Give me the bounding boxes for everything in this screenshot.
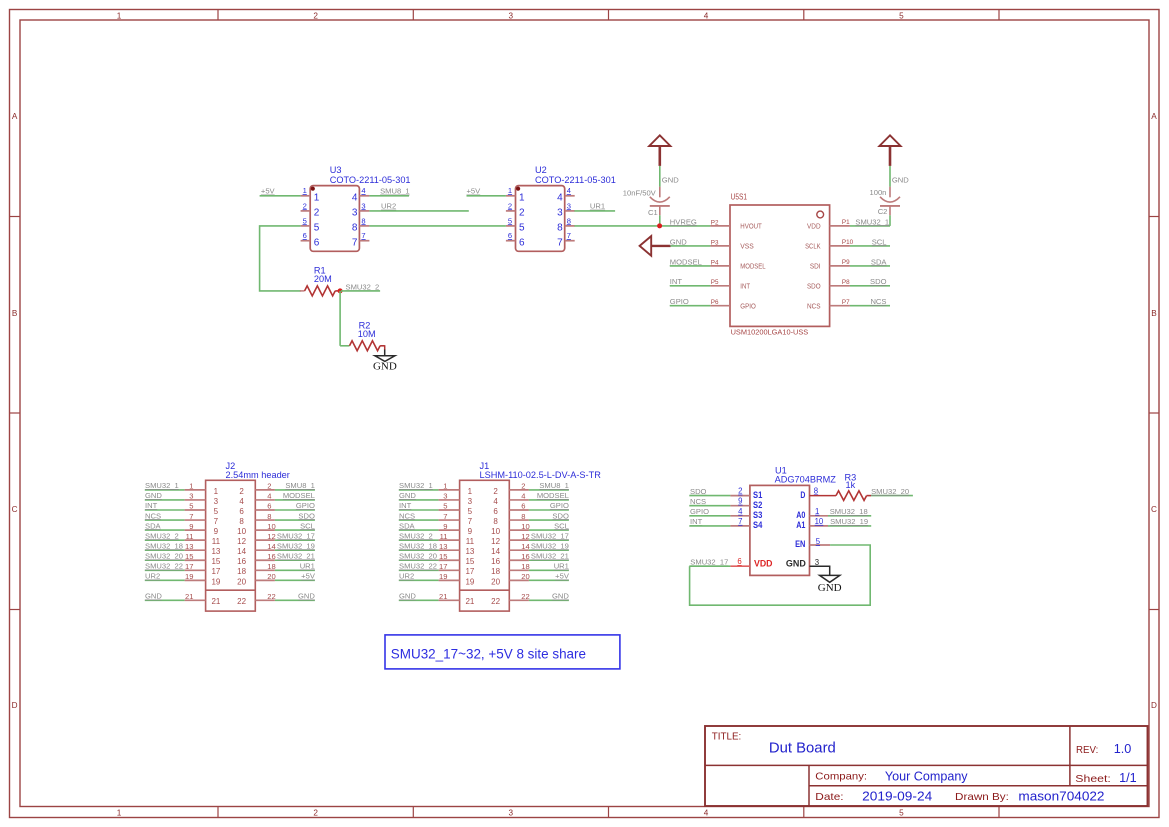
- svg-text:SMU32_22: SMU32_22: [399, 562, 437, 571]
- svg-text:18: 18: [521, 562, 529, 571]
- U2 pin 6: [506, 240, 516, 242]
- U5S1 pin P4 MODSEL: [710, 265, 730, 267]
- svg-text:19: 19: [465, 577, 474, 586]
- net label SMU32_1: [855, 217, 889, 226]
- analog mux U1 ADG704BRMZ: [730, 465, 836, 575]
- svg-text:100n: 100n: [870, 188, 887, 197]
- svg-text:11: 11: [186, 532, 194, 541]
- U1 pin 1 A0: [810, 515, 829, 517]
- svg-text:2: 2: [508, 201, 512, 210]
- svg-text:14: 14: [491, 547, 500, 556]
- svg-text:SMU32_21: SMU32_21: [277, 551, 315, 560]
- svg-text:15: 15: [465, 557, 474, 566]
- svg-text:GND: GND: [662, 175, 679, 184]
- J1 pin 12 net SMU32_17: [509, 539, 529, 541]
- ground GND (below R2): [373, 350, 397, 373]
- svg-text:3: 3: [468, 497, 473, 506]
- svg-text:5: 5: [189, 502, 193, 511]
- svg-text:1.0: 1.0: [1114, 741, 1132, 756]
- svg-text:7: 7: [567, 231, 571, 240]
- J2 pin 11 net SMU32_2: [145, 539, 185, 541]
- net label SMU8_1: [380, 187, 410, 196]
- connector J1 LSHM-110-02.5-L-DV-A-S-TR: [399, 461, 601, 611]
- svg-text:3: 3: [214, 497, 219, 506]
- svg-text:P6: P6: [711, 299, 719, 306]
- resistor R1: [300, 265, 340, 296]
- svg-text:SCL: SCL: [300, 521, 315, 530]
- net label +5V (U2): [467, 187, 482, 196]
- U1 pin 4 S3: [730, 515, 750, 517]
- svg-text:Drawn By:: Drawn By:: [955, 791, 1009, 803]
- svg-text:19: 19: [185, 572, 193, 581]
- svg-text:1: 1: [303, 186, 307, 195]
- U5S1 pin P5 INT: [710, 285, 730, 287]
- svg-text:8: 8: [352, 223, 358, 234]
- svg-text:SMU8_1: SMU8_1: [539, 481, 569, 490]
- svg-text:4: 4: [267, 492, 271, 501]
- svg-text:6: 6: [239, 507, 244, 516]
- U1 pin 6 VDD: [730, 565, 750, 567]
- wire R1 to R2: [339, 291, 341, 346]
- svg-text:16: 16: [267, 552, 275, 561]
- svg-text:2: 2: [239, 487, 244, 496]
- wire U3 pin8 to U2 pin5: [369, 225, 506, 227]
- svg-text:GPIO: GPIO: [550, 501, 569, 510]
- net label +5V: [261, 187, 276, 196]
- J2 pin 7 net NCS: [145, 519, 185, 521]
- U2 pin-1 dot: [516, 187, 520, 191]
- wire U3 pin3 UR2: [369, 210, 468, 212]
- relay U2: [506, 165, 616, 252]
- U1 pin 5 EN: [810, 544, 831, 546]
- wire U2 pin8 to U551 HVREG: [574, 225, 710, 227]
- svg-text:9: 9: [443, 522, 447, 531]
- svg-text:SMU32_17: SMU32_17: [690, 557, 728, 566]
- svg-text:NCS: NCS: [145, 511, 161, 520]
- wire INT: [670, 285, 711, 287]
- svg-text:2: 2: [493, 487, 498, 496]
- svg-text:1: 1: [519, 193, 525, 204]
- svg-text:8: 8: [814, 486, 818, 495]
- net label SMU32_17: [690, 557, 728, 566]
- wire +5V to U3 pin1: [260, 195, 301, 197]
- svg-text:4: 4: [704, 809, 709, 818]
- svg-text:SMU32_19: SMU32_19: [531, 541, 569, 550]
- J2 pin 2 net SMU8_1: [255, 489, 275, 491]
- svg-text:15: 15: [185, 552, 193, 561]
- svg-text:1: 1: [443, 482, 447, 491]
- svg-text:COTO-2211-05-301: COTO-2211-05-301: [535, 175, 616, 185]
- svg-text:UR2: UR2: [399, 572, 414, 581]
- U1 pin 10 A1: [810, 525, 829, 527]
- svg-text:Date:: Date:: [815, 791, 843, 803]
- svg-text:3: 3: [567, 201, 571, 210]
- svg-text:9: 9: [468, 527, 473, 536]
- svg-text:P7: P7: [842, 299, 850, 306]
- svg-text:P5: P5: [711, 279, 719, 286]
- wire EN loop: [690, 545, 871, 605]
- svg-text:6: 6: [521, 502, 525, 511]
- wire SMU32_2 stub: [341, 290, 380, 292]
- svg-text:A: A: [1151, 112, 1157, 121]
- U5S1 polarity circle: [817, 211, 824, 218]
- net label SMU32_19: [830, 517, 868, 526]
- svg-text:21: 21: [211, 597, 220, 606]
- net label INT: [670, 277, 683, 286]
- svg-text:SCL: SCL: [554, 521, 569, 530]
- U2 pin 2: [506, 210, 516, 212]
- svg-text:SMU32_1: SMU32_1: [399, 481, 433, 490]
- J1 pin 19 net UR2: [399, 579, 439, 581]
- svg-text:SMU32_20: SMU32_20: [399, 551, 437, 560]
- wire SDA: [850, 265, 890, 267]
- svg-text:7: 7: [443, 512, 447, 521]
- svg-text:NCS: NCS: [399, 511, 415, 520]
- svg-text:6: 6: [303, 231, 307, 240]
- svg-text:20: 20: [237, 577, 246, 586]
- svg-text:SMU32_19: SMU32_19: [277, 541, 315, 550]
- capacitor C2: [870, 187, 901, 226]
- svg-text:B: B: [12, 309, 18, 318]
- svg-text:U5S1: U5S1: [731, 192, 748, 201]
- svg-text:14: 14: [521, 542, 529, 551]
- svg-text:8: 8: [267, 512, 271, 521]
- J2 pin 22 net GND: [255, 599, 275, 601]
- J2 pin 16 net SMU32_21: [255, 559, 275, 561]
- svg-text:5: 5: [468, 507, 473, 516]
- svg-text:1/1: 1/1: [1119, 770, 1137, 785]
- svg-text:17: 17: [185, 562, 193, 571]
- svg-text:A: A: [12, 112, 18, 121]
- U2 pin 4: [565, 195, 575, 197]
- svg-text:6: 6: [737, 557, 741, 566]
- net label NCS: [870, 297, 886, 306]
- svg-text:10: 10: [237, 527, 246, 536]
- svg-text:D: D: [800, 490, 805, 501]
- svg-text:U3: U3: [330, 165, 342, 175]
- svg-text:U2: U2: [535, 165, 547, 175]
- wire GND to VSS: [671, 245, 711, 247]
- svg-text:REV:: REV:: [1076, 744, 1098, 756]
- svg-text:10: 10: [521, 522, 529, 531]
- svg-text:2: 2: [267, 482, 271, 491]
- J2 pin 4 net MODSEL: [255, 499, 275, 501]
- svg-text:EN: EN: [795, 539, 805, 550]
- svg-text:2019-09-24: 2019-09-24: [862, 789, 932, 804]
- net label HVREG: [670, 217, 697, 226]
- svg-text:P10: P10: [842, 239, 854, 246]
- power GND arrow (VSS): [640, 236, 671, 256]
- wire A0 SMU32_18: [828, 515, 871, 517]
- svg-text:5: 5: [303, 216, 307, 225]
- svg-text:2: 2: [738, 487, 742, 496]
- svg-text:UR1: UR1: [590, 202, 605, 211]
- svg-text:SMU32_17: SMU32_17: [531, 531, 569, 540]
- svg-text:20M: 20M: [314, 274, 332, 284]
- svg-text:GND: GND: [818, 582, 842, 594]
- svg-text:5: 5: [816, 537, 821, 546]
- wire U3 pin4 to SMU8_1: [369, 195, 409, 197]
- svg-text:1: 1: [189, 482, 193, 491]
- svg-text:GPIO: GPIO: [740, 301, 756, 310]
- J1 pin 2 net SMU8_1: [509, 489, 529, 491]
- svg-text:2: 2: [313, 809, 318, 818]
- svg-text:VDD: VDD: [807, 222, 821, 231]
- U3 pin 5: [301, 225, 311, 227]
- J1 pin 20 net +5V: [509, 579, 529, 581]
- svg-text:INT: INT: [670, 277, 683, 286]
- wire U3 pin5 to R1: [260, 226, 301, 291]
- svg-text:SDA: SDA: [871, 257, 888, 266]
- U3 pin 7: [359, 240, 369, 242]
- U5S1 pin P9 SDI: [830, 265, 850, 267]
- wire GPIO: [670, 305, 711, 307]
- svg-text:INT: INT: [690, 517, 703, 526]
- net label GPIO (U1): [690, 507, 709, 516]
- svg-text:INT: INT: [399, 501, 412, 510]
- svg-text:4: 4: [567, 186, 571, 195]
- svg-text:14: 14: [267, 542, 275, 551]
- svg-text:SMU32_20: SMU32_20: [145, 551, 183, 560]
- svg-text:SMU32_2: SMU32_2: [145, 531, 179, 540]
- junction SMU32_2 node: [338, 288, 343, 293]
- svg-text:UR1: UR1: [554, 562, 569, 571]
- svg-text:SCLK: SCLK: [805, 242, 821, 251]
- svg-text:12: 12: [237, 537, 246, 546]
- svg-text:9: 9: [214, 527, 219, 536]
- svg-text:6: 6: [519, 237, 525, 248]
- svg-text:21: 21: [185, 592, 193, 601]
- svg-text:TITLE:: TITLE:: [712, 730, 742, 742]
- svg-text:4: 4: [521, 492, 525, 501]
- svg-text:17: 17: [439, 562, 447, 571]
- svg-text:SMU32_2: SMU32_2: [346, 282, 380, 291]
- J1 pin 11 net SMU32_2: [399, 539, 439, 541]
- svg-text:SDO: SDO: [690, 487, 707, 496]
- svg-text:8: 8: [521, 512, 525, 521]
- svg-text:SDI: SDI: [810, 262, 821, 271]
- svg-text:15: 15: [211, 557, 220, 566]
- net label UR2: [381, 202, 396, 211]
- svg-text:+5V: +5V: [261, 187, 276, 196]
- U5S1 pin P10 SCLK: [830, 245, 850, 247]
- svg-text:SDA: SDA: [399, 521, 416, 530]
- svg-text:SMU32_18: SMU32_18: [399, 541, 437, 550]
- svg-text:11: 11: [440, 532, 448, 541]
- J1 pin 3 net GND: [399, 499, 439, 501]
- relay U3: [301, 165, 411, 252]
- svg-text:5: 5: [314, 223, 320, 234]
- svg-text:12: 12: [267, 532, 275, 541]
- svg-text:19: 19: [211, 577, 220, 586]
- svg-text:3: 3: [189, 492, 193, 501]
- J2 pin 21 net GND: [145, 599, 185, 601]
- svg-text:SDO: SDO: [298, 511, 315, 520]
- svg-text:8: 8: [557, 223, 563, 234]
- resistor R2: [340, 321, 385, 351]
- power GND flag above C1: [649, 135, 679, 186]
- svg-text:UR2: UR2: [381, 202, 396, 211]
- U3 pin 1: [301, 195, 311, 197]
- svg-text:C2: C2: [878, 207, 888, 216]
- svg-text:C: C: [1151, 505, 1157, 514]
- svg-text:7: 7: [352, 237, 358, 248]
- svg-text:20: 20: [267, 572, 275, 581]
- svg-text:MODSEL: MODSEL: [670, 257, 702, 266]
- U3 pin 2: [301, 210, 311, 212]
- svg-text:1: 1: [508, 186, 512, 195]
- svg-text:7: 7: [468, 517, 473, 526]
- svg-text:1: 1: [468, 487, 473, 496]
- svg-text:SMU32_21: SMU32_21: [531, 551, 569, 560]
- wire U2 pin3 UR1: [574, 210, 615, 212]
- svg-text:SMU32_2: SMU32_2: [399, 531, 433, 540]
- svg-text:12: 12: [521, 532, 529, 541]
- svg-text:8: 8: [493, 517, 498, 526]
- U5S1 pin P2 HVOUT: [710, 225, 730, 227]
- svg-text:13: 13: [439, 542, 447, 551]
- U3 pin 3: [359, 210, 369, 212]
- svg-text:SMU32_22: SMU32_22: [145, 562, 183, 571]
- svg-text:1k: 1k: [846, 480, 856, 490]
- power GND flag above C2: [879, 135, 909, 186]
- svg-text:HVOUT: HVOUT: [740, 222, 762, 231]
- svg-text:HVREG: HVREG: [670, 217, 697, 226]
- svg-text:SMU32_19: SMU32_19: [830, 517, 868, 526]
- svg-text:7: 7: [189, 512, 193, 521]
- svg-text:3: 3: [509, 11, 514, 20]
- svg-text:MODSEL: MODSEL: [537, 491, 569, 500]
- U1 pin 7 S4: [730, 525, 750, 527]
- svg-text:SMU32_18: SMU32_18: [145, 541, 183, 550]
- svg-text:20: 20: [521, 572, 529, 581]
- J1 pin 4 net MODSEL: [509, 499, 529, 501]
- svg-text:SDO: SDO: [807, 281, 821, 290]
- J1 pin 22 net GND: [509, 599, 529, 601]
- svg-text:11: 11: [466, 537, 475, 546]
- svg-text:4: 4: [493, 497, 498, 506]
- junction HVREG node: [657, 223, 662, 228]
- net label GPIO: [670, 297, 689, 306]
- J2 pin 15 net SMU32_20: [145, 559, 185, 561]
- svg-text:GPIO: GPIO: [670, 297, 689, 306]
- svg-text:GND: GND: [298, 592, 315, 601]
- J1 pin 21 net GND: [399, 599, 439, 601]
- wire SCL: [850, 245, 890, 247]
- U2 pin 5: [506, 225, 516, 227]
- svg-text:ADG704BRMZ: ADG704BRMZ: [775, 475, 837, 485]
- svg-text:5: 5: [899, 809, 904, 818]
- J2 pin 18 net UR1: [255, 569, 275, 571]
- svg-text:2: 2: [313, 11, 318, 20]
- svg-text:P9: P9: [842, 259, 850, 266]
- U5S1 pin P3 VSS: [710, 245, 730, 247]
- svg-text:SDO: SDO: [552, 511, 569, 520]
- svg-text:SMU32_18: SMU32_18: [830, 507, 868, 516]
- svg-text:6: 6: [493, 507, 498, 516]
- svg-text:1: 1: [117, 11, 122, 20]
- svg-text:S4: S4: [753, 520, 763, 531]
- J2 pin 6 net GPIO: [255, 509, 275, 511]
- svg-text:VDD: VDD: [754, 558, 773, 569]
- net label MODSEL: [670, 257, 702, 266]
- svg-text:D: D: [1151, 701, 1157, 710]
- svg-text:3: 3: [509, 809, 514, 818]
- svg-text:2: 2: [303, 201, 307, 210]
- svg-text:GND: GND: [552, 592, 569, 601]
- IC U5S1 USM10200LGA10-USS: [710, 192, 853, 336]
- svg-text:Dut Board: Dut Board: [769, 740, 836, 757]
- svg-text:MODSEL: MODSEL: [283, 491, 315, 500]
- svg-text:GND: GND: [399, 592, 416, 601]
- J2 pin 1 net SMU32_1: [145, 489, 185, 491]
- wire GPIO to U1: [689, 515, 730, 517]
- svg-text:4: 4: [738, 507, 743, 516]
- svg-text:NCS: NCS: [807, 301, 821, 310]
- svg-text:22: 22: [237, 597, 246, 606]
- net label SDO: [870, 277, 887, 286]
- svg-text:SMU8_1: SMU8_1: [380, 187, 410, 196]
- svg-text:3: 3: [361, 201, 365, 210]
- U3 pin-1 dot: [311, 187, 315, 191]
- J2 pin 5 net INT: [145, 509, 185, 511]
- svg-text:GND: GND: [786, 558, 806, 569]
- svg-text:P8: P8: [842, 279, 850, 286]
- svg-text:10: 10: [491, 527, 500, 536]
- J1 pin 18 net UR1: [509, 569, 529, 571]
- J2 pin 9 net SDA: [145, 529, 185, 531]
- svg-text:16: 16: [237, 557, 246, 566]
- U3 pin 8: [359, 225, 369, 227]
- svg-text:1: 1: [815, 507, 819, 516]
- wire R3 to SMU32_20: [871, 495, 913, 497]
- svg-text:SMU32_1: SMU32_1: [145, 481, 179, 490]
- J1 pin 17 net SMU32_22: [399, 569, 439, 571]
- svg-text:10: 10: [815, 517, 824, 526]
- net label SMU32_20: [871, 487, 909, 496]
- J1 pin 8 net SDO: [509, 519, 529, 521]
- svg-text:22: 22: [267, 592, 275, 601]
- svg-text:1: 1: [117, 809, 122, 818]
- J2 pin 19 net UR2: [145, 579, 185, 581]
- U1 pin 9 S2: [730, 505, 750, 507]
- wire INT to U1: [689, 525, 730, 527]
- svg-text:8: 8: [239, 517, 244, 526]
- svg-text:2: 2: [314, 208, 320, 219]
- svg-text:10M: 10M: [358, 329, 376, 339]
- svg-text:5: 5: [443, 502, 447, 511]
- svg-text:5: 5: [508, 216, 512, 225]
- svg-text:SMU32_20: SMU32_20: [871, 487, 909, 496]
- svg-text:3: 3: [443, 492, 447, 501]
- svg-text:5: 5: [899, 11, 904, 20]
- svg-text:GND: GND: [145, 491, 162, 500]
- J1 pin 15 net SMU32_20: [399, 559, 439, 561]
- net label INT (U1): [690, 517, 703, 526]
- svg-text:13: 13: [185, 542, 193, 551]
- svg-text:GPIO: GPIO: [296, 501, 315, 510]
- net label SDA: [871, 257, 888, 266]
- svg-text:P1: P1: [842, 219, 850, 226]
- svg-text:SDO: SDO: [870, 277, 887, 286]
- J1 pin 5 net INT: [399, 509, 439, 511]
- svg-text:Your Company: Your Company: [885, 768, 968, 783]
- net label SDO (U1): [690, 487, 707, 496]
- svg-text:GND: GND: [670, 237, 687, 246]
- svg-text:18: 18: [267, 562, 275, 571]
- svg-text:7: 7: [361, 231, 365, 240]
- ground GND (U1 pin3): [810, 566, 842, 594]
